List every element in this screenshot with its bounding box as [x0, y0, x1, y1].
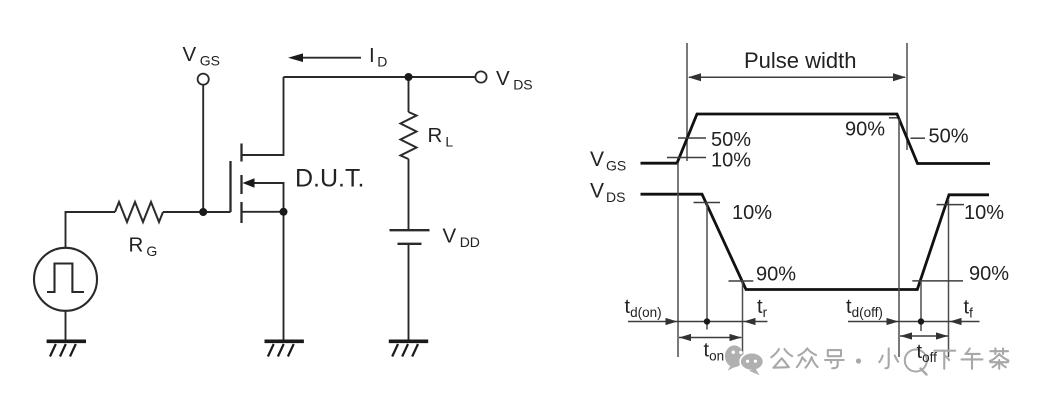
drop line VDS rise 90%	[920, 281, 922, 331]
transistor Q1 gate bar	[229, 161, 231, 212]
node dot td(off)/tf	[918, 318, 924, 324]
tick VDS 10% right	[937, 204, 965, 206]
source lead	[242, 211, 284, 213]
drop line VGS fall 90%	[898, 119, 900, 357]
VGS waveform	[641, 114, 991, 164]
tick VDS 10% left	[694, 202, 721, 204]
svg-text:10%: 10%	[964, 202, 1004, 224]
tick VDS 90% left	[729, 280, 754, 282]
top rail wire drain to VDS terminal	[284, 76, 476, 78]
drop line VDS rise 10%	[948, 199, 950, 357]
watermark text 公众号·小Q下午茶 (hand-drawn glyphs)	[771, 348, 1008, 374]
tick VDS 90% right	[912, 280, 963, 282]
wire generator top to resistor RG	[66, 212, 116, 248]
VDS waveform	[641, 194, 990, 289]
svg-text:90%: 90%	[845, 119, 885, 141]
svg-text:10%: 10%	[732, 202, 772, 224]
node dot td(on)/tr	[704, 318, 710, 324]
ton arrow row left	[679, 337, 742, 339]
pulse width boundary line left	[686, 43, 688, 161]
td(off) arrowhead	[887, 318, 899, 325]
glyph ·	[856, 358, 861, 363]
svg-text:10%: 10%	[711, 150, 751, 172]
glyph 茶	[990, 348, 1009, 368]
battery VDD short plate	[398, 243, 422, 245]
ground G1 (generator)	[47, 341, 86, 356]
td(on) arrowhead	[666, 318, 678, 325]
tick VGS 90% right	[889, 117, 897, 119]
watermark bubbles	[725, 345, 744, 370]
tf arrowhead	[950, 318, 962, 325]
svg-text:50%: 50%	[929, 126, 969, 148]
pulse width boundary line right	[906, 43, 908, 150]
junction node gate	[199, 208, 207, 216]
svg-text:90%: 90%	[756, 264, 796, 286]
pulse symbol inside generator	[47, 264, 84, 293]
wire battery to ground	[408, 245, 410, 340]
mosfet body arrowhead	[243, 178, 255, 188]
transistor Q1 channel dash bottom	[240, 202, 242, 223]
pulse width dimension arrow	[689, 76, 905, 78]
glyph 下	[934, 351, 955, 369]
junction node source	[280, 208, 288, 216]
transistor Q1 channel dash middle	[240, 175, 242, 194]
ground G3 (battery)	[389, 341, 428, 356]
glyph 号	[825, 350, 844, 368]
drop line VDS fall 90%	[742, 280, 744, 357]
td(off)/tf arrow row right	[848, 321, 980, 323]
svg-text:50%: 50%	[711, 129, 751, 151]
ground G2 (source)	[265, 341, 304, 356]
drop line VGS rise start	[677, 163, 679, 357]
wire node A up to VGS terminal	[202, 85, 204, 212]
tick VGS 10% left	[667, 157, 706, 159]
resistor RL zigzag	[401, 112, 417, 159]
svg-text:Pulse width: Pulse width	[744, 48, 857, 73]
battery VDD long plate	[390, 229, 430, 231]
svg-text:D.U.T.: D.U.T.	[295, 165, 364, 193]
body lead with arrow	[252, 183, 284, 212]
wire RG to gate node	[163, 211, 231, 213]
transistor Q1 channel dash top	[240, 144, 242, 162]
glyph 公	[771, 349, 792, 368]
wire source to ground	[283, 212, 285, 340]
drain lead	[242, 77, 284, 155]
tick VGS 50% right	[911, 137, 926, 139]
glyph 小	[879, 348, 898, 368]
resistor RL wire top	[408, 77, 410, 112]
wire RL to battery	[408, 159, 410, 229]
glyph 午	[962, 348, 983, 368]
tr arrowhead	[744, 318, 756, 325]
resistor RG zigzag	[115, 202, 163, 222]
svg-text:90%: 90%	[969, 263, 1009, 285]
junction node drain rail	[405, 73, 413, 81]
ID arrowhead	[288, 53, 303, 62]
terminal VGS open circle	[198, 74, 209, 85]
terminal VDS open circle	[475, 71, 486, 82]
drop line VDS fall 10%	[706, 203, 708, 330]
tick VGS 50% left	[678, 137, 706, 139]
wire generator bottom to ground	[65, 311, 67, 340]
toff arrow row right	[900, 335, 948, 337]
glyph 众	[797, 348, 818, 367]
pulse generator V1 circle	[34, 248, 97, 311]
td(on)/tr arrow row left	[628, 321, 768, 323]
glyph Q	[905, 350, 927, 375]
current ID arrow line	[301, 57, 361, 59]
